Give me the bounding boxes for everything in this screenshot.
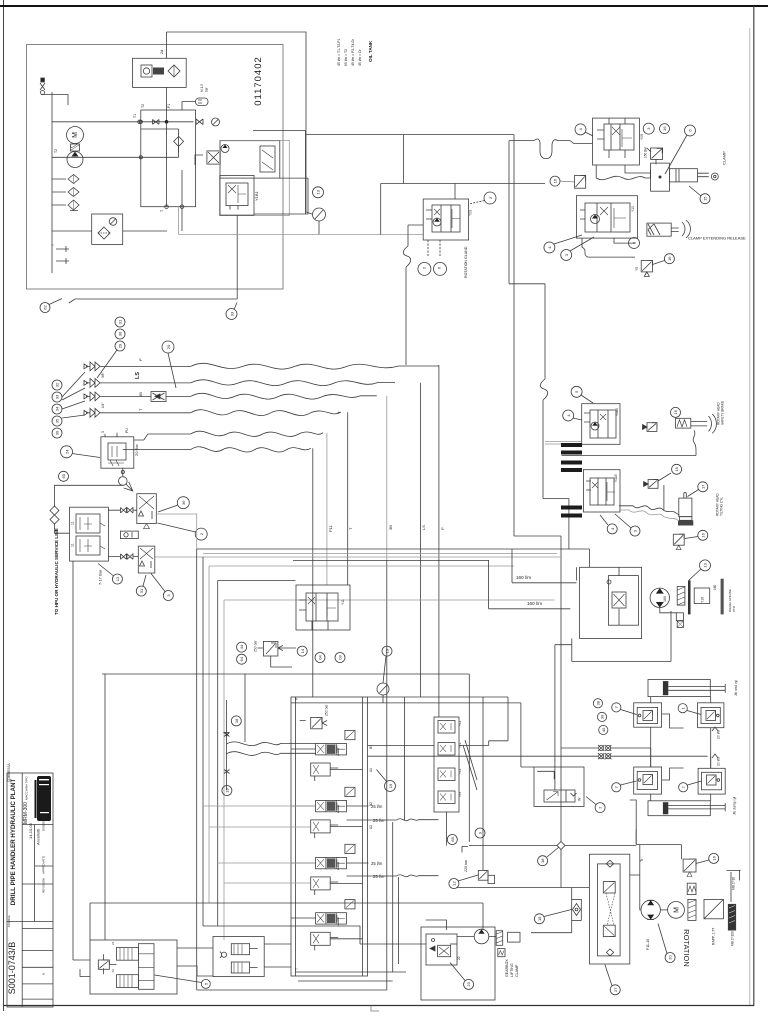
top trunk wire <box>167 32 307 212</box>
svg-text:16: 16 <box>674 466 679 471</box>
svg-text:3B: 3B <box>388 525 393 530</box>
node 31s <box>136 586 146 596</box>
svg-text:DRILL PIPE HANDLER HYDRAULIC P: DRILL PIPE HANDLER HYDRAULIC PLANT <box>10 779 17 906</box>
gauge G1 <box>212 118 220 126</box>
clamp cylinder C1 <box>669 169 718 182</box>
rotation gland valve V12 <box>423 199 468 240</box>
coupling <box>71 144 80 151</box>
title block <box>7 763 53 1007</box>
svg-text:2d: 2d <box>160 50 164 54</box>
node 2s <box>195 528 207 540</box>
bottom-left cluster A <box>90 940 177 994</box>
svg-text:03: 03 <box>338 655 343 660</box>
gearbox ratio <box>704 899 723 918</box>
svg-text:N: N <box>42 973 46 975</box>
svg-text:29: 29 <box>118 343 123 348</box>
bottom trunks <box>90 903 483 940</box>
svg-text:38: 38 <box>596 700 601 705</box>
svg-text:25 l/m: 25 l/m <box>373 874 385 879</box>
inline check LS <box>151 392 166 402</box>
node 12s <box>112 574 122 584</box>
svg-text:Y09: Y09 <box>640 134 644 140</box>
hose to clamp valve <box>509 140 534 142</box>
svg-text:T1: T1 <box>133 114 137 118</box>
node 3 <box>643 123 654 134</box>
solenoid Y5 <box>641 261 652 277</box>
svg-text:44: 44 <box>239 644 244 649</box>
svg-text:04: 04 <box>318 655 323 660</box>
ports to nodes 2,6 <box>428 240 440 256</box>
tank drain line <box>69 215 237 303</box>
svg-text:P: P <box>138 358 143 361</box>
svg-text:Y5: Y5 <box>635 267 639 271</box>
svg-text:Y03: Y03 <box>469 210 473 216</box>
solenoid valve SV1 <box>137 494 157 529</box>
bank port labels <box>295 698 373 970</box>
node 3s <box>163 591 173 601</box>
solenoid valve SV2 <box>138 546 155 573</box>
svg-text:32: 32 <box>55 382 60 387</box>
wire valve2 down <box>582 238 635 257</box>
svg-text:SAFETY BRAKE: SAFETY BRAKE <box>721 401 725 425</box>
svg-text:DISEGNATO: DISEGNATO <box>42 813 46 831</box>
svg-text:160: 160 <box>713 584 717 590</box>
svg-text:7-17 Bar: 7-17 Bar <box>98 569 103 585</box>
svg-text:64: 64 <box>239 656 244 661</box>
svg-text:ROTATION GLAND: ROTATION GLAND <box>464 246 468 278</box>
bank feed hoses <box>226 700 228 790</box>
rotation wires <box>636 845 681 860</box>
bank relief 250bar <box>300 717 327 728</box>
svg-text:16: 16 <box>700 532 705 537</box>
solenoid 150bar Y <box>647 148 663 164</box>
svg-text:Y10: Y10 <box>631 206 635 212</box>
right link wires <box>253 131 308 215</box>
svg-text:34: 34 <box>55 406 60 411</box>
svg-text:18: 18 <box>224 788 229 793</box>
svg-text:CLAMP: CLAMP <box>515 964 519 977</box>
ball valve <box>122 468 124 476</box>
svg-text:REVISIONI: REVISIONI <box>42 878 46 893</box>
jib wires <box>368 748 708 756</box>
brake W <box>687 883 696 894</box>
node 20r <box>665 953 675 963</box>
cylinder mount block <box>651 163 670 191</box>
internal diamond check <box>174 136 184 146</box>
node 36s <box>177 497 189 509</box>
svg-text:23: 23 <box>466 981 471 986</box>
svg-text:MACCHINA TIPO: MACCHINA TIPO <box>25 776 29 800</box>
hose wavy to cylinder <box>596 165 650 180</box>
pressure reducer 20Bar <box>101 433 134 468</box>
svg-text:MRM-300: MRM-300 <box>23 802 29 824</box>
svg-text:20 l/m: 20 l/m <box>717 730 721 739</box>
svg-text:20: 20 <box>166 344 171 349</box>
svg-text:13: 13 <box>703 562 708 567</box>
svg-text:03: 03 <box>230 311 235 316</box>
svg-text:16: 16 <box>673 409 678 414</box>
svg-text:CLAMP: CLAMP <box>722 151 727 165</box>
coupling hatched <box>688 899 696 920</box>
svg-text:LS: LS <box>421 525 426 530</box>
drain gray line <box>179 207 423 235</box>
suction line <box>52 121 194 123</box>
node 03 <box>226 309 237 320</box>
clamp extend valve V11 <box>576 196 637 238</box>
svg-text:Z2: Z2 <box>111 969 115 973</box>
svg-text:14-10-05: 14-10-05 <box>28 822 33 839</box>
svg-text:15: 15 <box>703 196 708 201</box>
motor M1 <box>67 127 84 144</box>
svg-text:150 Bar: 150 Bar <box>644 146 648 158</box>
svg-text:TO HPU OR HYDRAULIC SERVICE LI: TO HPU OR HYDRAULIC SERVICE LINE <box>54 528 59 615</box>
svg-text:250 bar: 250 bar <box>325 704 329 716</box>
svg-text:160: 160 <box>663 596 667 602</box>
node 60 <box>59 471 69 481</box>
svg-text:18: 18 <box>537 916 542 921</box>
rotation motor M <box>668 902 685 919</box>
node 4 <box>575 124 586 135</box>
svg-text:45 l/m = T1-T2-P1: 45 l/m = T1-T2-P1 <box>337 39 341 66</box>
node 19 <box>385 781 396 792</box>
solenoid vent valve <box>195 151 220 165</box>
power unit enclosure <box>27 45 284 290</box>
svg-text:LIFTING: LIFTING <box>510 963 514 977</box>
svg-text:01170402: 01170402 <box>253 56 264 106</box>
svg-text:16: 16 <box>553 178 558 183</box>
hose break <box>540 379 547 400</box>
jib cmd cylinder <box>648 680 725 697</box>
svg-text:Jib cmd cyl: Jib cmd cyl <box>734 680 738 696</box>
svg-text:13: 13 <box>385 648 390 653</box>
node 20 <box>162 341 174 353</box>
restrictor with diamond <box>572 899 582 920</box>
svg-text:220 bar: 220 bar <box>464 859 468 872</box>
svg-text:T: T <box>51 244 55 246</box>
wires manifold bottom <box>140 156 142 158</box>
svg-text:APPROVATO: APPROVATO <box>42 855 46 874</box>
node 14 <box>297 646 307 656</box>
node 3b <box>561 250 572 261</box>
node 68 <box>447 835 457 845</box>
node 15 <box>700 194 710 204</box>
junction diamond <box>557 842 565 850</box>
svg-text:Y1A5: Y1A5 <box>614 474 618 482</box>
svg-text:20 l/m: 20 l/m <box>717 757 721 766</box>
svg-text:18: 18 <box>540 858 545 863</box>
wire pump to cooler <box>166 32 168 122</box>
svg-text:250 bar: 250 bar <box>254 640 258 652</box>
gray pilot pair <box>545 442 582 445</box>
svg-text:OIL TANK: OIL TANK <box>368 40 373 62</box>
svg-text:68: 68 <box>450 837 455 842</box>
release cylinder C2 <box>647 220 691 238</box>
pressure reducer 7-17Bar <box>70 507 109 561</box>
svg-text:27: 27 <box>613 987 618 992</box>
svg-text:P1: P1 <box>167 104 171 108</box>
node 16 solenoid mid <box>550 176 560 186</box>
cross fittings <box>598 745 611 759</box>
svg-text:45 l/m = Dr: 45 l/m = Dr <box>358 48 362 66</box>
node circles column left <box>52 380 62 438</box>
svg-text:11: 11 <box>71 521 75 525</box>
svg-text:PU: PU <box>125 428 129 433</box>
node 44 <box>237 642 247 652</box>
bank spool 1 <box>311 730 355 781</box>
svg-text:MB Z=16: MB Z=16 <box>732 877 736 890</box>
svg-text:Y12: Y12 <box>458 720 462 726</box>
svg-text:1/4": 1/4" <box>101 402 105 408</box>
check valve box J1 <box>634 703 662 727</box>
svg-text:160 l/m: 160 l/m <box>527 601 542 606</box>
W control box <box>534 767 584 807</box>
mast brake cylinder <box>676 414 717 433</box>
node 13c <box>382 646 392 656</box>
svg-text:20: 20 <box>668 955 673 960</box>
node 9 <box>475 828 485 838</box>
bank internal wires <box>291 749 363 939</box>
pilot manifold tall rect <box>220 140 290 215</box>
svg-text:B2: B2 <box>369 802 373 806</box>
svg-text:A1: A1 <box>369 768 373 772</box>
svg-text:40: 40 <box>601 727 606 732</box>
small boxes under pump <box>660 608 684 628</box>
svg-text:62: 62 <box>43 305 48 310</box>
manifold block rect <box>141 110 196 207</box>
svg-text:16: 16 <box>711 855 716 860</box>
drain to checks <box>55 485 123 506</box>
rotation pump circle <box>641 900 660 919</box>
valve manifold column <box>434 717 459 812</box>
gauge G3 <box>377 683 389 695</box>
gearbox pump <box>474 929 489 944</box>
svg-text:TILTING CYL: TILTING CYL <box>720 497 724 516</box>
solenoid Y6b <box>673 534 684 550</box>
coupling hatch <box>677 579 723 615</box>
svg-text:T: T <box>295 968 299 970</box>
node 04 <box>315 653 325 663</box>
svg-text:30: 30 <box>55 430 60 435</box>
svg-text:18: 18 <box>234 718 239 723</box>
pump P1 <box>67 152 83 168</box>
tank stubs <box>56 246 69 264</box>
node 13 gauge <box>313 187 324 198</box>
svg-text:ROTATION: ROTATION <box>682 929 691 967</box>
gray feed corners <box>156 514 196 549</box>
svg-text:24: 24 <box>64 449 69 454</box>
bank spool 4 <box>311 900 355 951</box>
svg-text:CODICE: CODICE <box>7 915 11 927</box>
port bars upper <box>561 443 582 472</box>
trunk y674 <box>102 674 521 767</box>
bank spool 3 <box>311 844 355 895</box>
svg-text:20 Bar: 20 Bar <box>134 444 139 456</box>
svg-text:COMMESSA: COMMESSA <box>7 763 11 782</box>
svg-text:11: 11 <box>71 543 75 547</box>
svg-text:W: W <box>578 797 582 801</box>
drain wire to filter <box>181 207 183 231</box>
svg-text:16: 16 <box>662 126 667 131</box>
svg-text:Jib clamp cyl: Jib clamp cyl <box>733 796 737 815</box>
svg-text:35: 35 <box>55 418 60 423</box>
tank left rail <box>51 92 53 273</box>
svg-text:14: 14 <box>300 648 305 653</box>
Y1B1 valve <box>220 175 254 215</box>
svg-text:RAPP. 1:77: RAPP. 1:77 <box>712 928 716 945</box>
relief block upper <box>220 141 280 178</box>
gauge G2 <box>313 208 326 221</box>
node 03b <box>335 653 345 663</box>
pressure switch PS1 <box>196 98 209 106</box>
hose feeds lower <box>123 434 191 450</box>
main pump <box>650 588 669 607</box>
check valves row <box>52 175 79 184</box>
node 3c <box>629 238 640 249</box>
port bars lower <box>561 506 582 518</box>
check valve box J3 <box>634 767 662 794</box>
node 62 <box>40 303 50 313</box>
nodes 38 39 40 <box>593 699 602 708</box>
node 4b <box>544 242 555 253</box>
bottom-left cluster B <box>213 937 264 977</box>
svg-text:Z1: Z1 <box>111 941 115 945</box>
svg-text:31: 31 <box>139 588 144 593</box>
svg-text:PTO: PTO <box>732 605 736 612</box>
company logo <box>35 776 52 821</box>
node 27 <box>610 985 620 995</box>
svg-text:LS: LS <box>135 372 141 379</box>
check valve box J4 <box>698 768 725 794</box>
svg-text:M: M <box>72 132 79 138</box>
cooler/filter box top <box>133 58 187 87</box>
hose verticals <box>438 365 440 717</box>
corner mark <box>462 847 468 853</box>
svg-text:Y14: Y14 <box>458 768 462 774</box>
center LS valve V13 <box>296 585 350 630</box>
svg-text:M 1.5: M 1.5 <box>200 84 204 92</box>
svg-text:12: 12 <box>451 881 456 886</box>
svg-text:36: 36 <box>181 500 186 505</box>
svg-text:33: 33 <box>55 394 60 399</box>
pump unit box <box>580 567 642 638</box>
svg-text:GEARBOX: GEARBOX <box>505 959 509 977</box>
node 16 <box>660 124 670 134</box>
clamp valve V10 <box>593 118 640 165</box>
wire valve to mount <box>625 165 650 173</box>
svg-text:31: 31 <box>118 319 123 324</box>
svg-text:19: 19 <box>388 783 393 788</box>
svg-text:Y15: Y15 <box>458 791 462 797</box>
svg-text:160 l/m: 160 l/m <box>516 575 531 580</box>
svg-text:13: 13 <box>316 189 321 194</box>
rotation motor box <box>589 854 629 964</box>
breather <box>40 78 68 105</box>
svg-text:P11: P11 <box>328 524 333 532</box>
svg-text:T2: T2 <box>54 149 58 153</box>
svg-text:Y11: Y11 <box>341 599 345 605</box>
pinion hatched <box>728 904 735 930</box>
main valve bank <box>291 697 368 976</box>
quick couplings <box>84 362 100 417</box>
relief 250bar center <box>257 641 296 656</box>
node 64 <box>237 654 247 664</box>
pump box bottom wires <box>555 645 572 790</box>
svg-text:CLAMP EXTENDING RELEASE: CLAMP EXTENDING RELEASE <box>688 236 746 241</box>
svg-text:Y1B1: Y1B1 <box>254 190 259 201</box>
svg-text:3/8": 3/8" <box>101 372 105 378</box>
svg-text:16: 16 <box>667 256 672 261</box>
node circles top <box>115 317 125 351</box>
svg-text:25 l/m: 25 l/m <box>373 818 385 823</box>
shutoff valve V1 <box>196 119 203 125</box>
svg-text:60: 60 <box>61 473 66 478</box>
tilt cylinder <box>678 493 693 526</box>
svg-text:P: P <box>295 698 299 700</box>
gearbox lifting cluster <box>421 927 495 1000</box>
shuttle valve <box>120 531 138 539</box>
svg-text:17: 17 <box>700 484 705 489</box>
svg-text:Y1A4: Y1A4 <box>615 408 619 416</box>
svg-text:45 l/m = P2-T4-Dr: 45 l/m = P2-T4-Dr <box>351 38 355 66</box>
mast raising valve V5 <box>582 404 620 445</box>
svg-text:Ancellotti: Ancellotti <box>36 829 41 845</box>
trunk wires right <box>514 135 561 888</box>
solenoid Y16b <box>683 859 696 876</box>
mast raising valve V6 <box>583 470 620 512</box>
oil tank spec text <box>337 38 362 66</box>
bank spool 2 <box>311 787 355 838</box>
node 6 <box>685 125 696 136</box>
svg-text:12: 12 <box>115 576 120 581</box>
hoses wavy bundle <box>191 363 439 452</box>
svg-text:39: 39 <box>600 714 605 719</box>
twin restrictors upper <box>108 508 138 560</box>
return line <box>52 156 141 158</box>
jib clamp cylinder <box>648 801 725 816</box>
svg-text:22: 22 <box>457 956 461 960</box>
svg-text:3: 3 <box>101 431 105 433</box>
svg-text:A2: A2 <box>369 825 373 829</box>
svg-text:65 l/m = T3: 65 l/m = T3 <box>344 49 348 66</box>
svg-text:S001-0743/B: S001-0743/B <box>7 942 17 995</box>
hose lines straight <box>100 366 191 412</box>
svg-text:F11-10: F11-10 <box>646 939 650 950</box>
svg-text:MB Z=100: MB Z=100 <box>731 931 735 946</box>
svg-text:25 l/m: 25 l/m <box>371 861 383 866</box>
wavy link to cylinder <box>619 506 679 516</box>
node 24 <box>61 446 73 458</box>
return filter F1 <box>92 214 123 245</box>
svg-text:30: 30 <box>118 331 123 336</box>
svg-text:Y16: Y16 <box>701 597 705 603</box>
svg-text:M: M <box>674 907 681 913</box>
wires bank right <box>368 746 435 821</box>
trunk corners down <box>197 548 590 550</box>
svg-text:T2: T2 <box>141 104 145 108</box>
check valve box J2 <box>698 703 724 728</box>
svg-text:P: P <box>440 527 445 530</box>
brake solenoid <box>671 407 681 417</box>
